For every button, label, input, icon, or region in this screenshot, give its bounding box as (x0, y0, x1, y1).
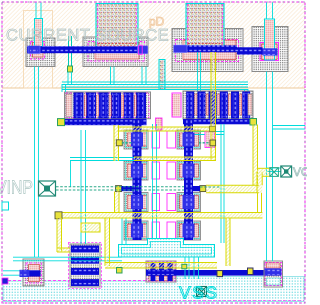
poly contact box gap M1-M2 (68, 66, 73, 72)
svg-text:VSS: VSS (179, 283, 219, 303)
VA1 implant dash right (135, 4, 137, 47)
port VSS (197, 287, 207, 297)
MB3 metal finger 2 (159, 262, 164, 281)
MA1 left contact column (66, 94, 72, 117)
poly contact box bottom band (117, 268, 123, 274)
VB1 row 2 contact plate (131, 164, 143, 178)
via stack column above M1 (35, 19, 43, 47)
cascode row 2 left cell group (124, 161, 148, 180)
metal1 port box left edge lower (2, 278, 8, 284)
nmos array MA1 implant dashed box (66, 93, 149, 118)
cascode row 3 left cell group (124, 193, 148, 212)
port VINP (39, 181, 56, 196)
via array VA1 bottom red row (98, 44, 136, 46)
metal1 stub row2 right (193, 186, 200, 191)
metal1 stub row2 left (122, 186, 135, 191)
metal1 BB1 right contact plate (138, 46, 148, 54)
VB1 row 4 contact plate (131, 224, 143, 238)
MA2 metal finger F3 (209, 92, 217, 119)
nwell outline around M1 (24, 11, 53, 89)
VA2 implant dash right (221, 4, 223, 47)
metal1 vertical bus VB1 (133, 119, 142, 240)
metal2 wire row link mid (134, 157, 216, 161)
wire metal1 stub right of MB3 (194, 257, 199, 280)
pmos M3 pimplant dashed box (176, 40, 239, 62)
wire metal1 drop to VINP line (70, 161, 72, 187)
substrate implant dashed line (3, 280, 160, 282)
metal2 wire vout riser (257, 172, 262, 193)
metal1 bus BB2 across M3 (174, 45, 238, 52)
pmos M2 pimplant dashed box (88, 42, 145, 62)
svg-text:VOUT: VOUT (293, 165, 307, 179)
metal1 port box left edge mid (2, 202, 9, 210)
metal2 via box main band left end (55, 212, 62, 219)
via box on MB3-MB4 wire right (248, 268, 254, 275)
metal1 jog wire dashes (237, 47, 263, 54)
pmos M2 active area (83, 37, 148, 67)
MBA finger bar 1 (71, 246, 99, 253)
svg-text:VINP: VINP (0, 177, 33, 198)
wire metal1 band to T-region (122, 218, 126, 244)
substrate implant dashed line bottom (3, 300, 304, 302)
poly contact box near MB3 (182, 264, 187, 269)
metal1 vertical bus VB2 (184, 119, 193, 240)
VINP signal wire dashed (56, 187, 184, 190)
nmos MB4 bottom-right active area (264, 261, 283, 287)
MA2 source bus via dashes (183, 119, 253, 124)
metal1 bus BB2 via dashes (174, 45, 238, 52)
wire metal1 drop to MA1 (62, 84, 66, 92)
MB1 metal1 contact plate (20, 270, 30, 277)
wire metal1 right rail (267, 72, 273, 262)
wire metal1 drop to MA2 (245, 89, 249, 91)
metal1 contact plate M4 vias (264, 49, 277, 55)
MA1 source bus via dashes (60, 119, 147, 125)
via array VA1 over M2 (96, 4, 138, 48)
MA2 metal finger F6 (242, 92, 250, 119)
metal1 wire above M1 left (35, 3, 37, 19)
wire metal1 stub left edge MB1 (3, 271, 20, 275)
wire metal1 stub to MB3 (185, 257, 189, 280)
cascode row 1 right implant box (167, 131, 176, 148)
MB3 metal finger 3 (168, 262, 173, 281)
pmos M1 active area (26, 38, 55, 67)
VA1 implant dash left (97, 4, 99, 47)
cascode row 2 right cell group (177, 161, 201, 180)
MB4 implant dashed box (265, 263, 282, 286)
cascode row 1 left implant box (152, 131, 160, 148)
cascode row 3 right implant box (167, 194, 176, 211)
metal2 via box row1 corner (209, 126, 215, 131)
MB3 metal finger 1 (151, 262, 156, 281)
MB3 metal1 drain bar (146, 270, 176, 276)
MA2 metal finger F1 (186, 92, 194, 119)
MA1 bus left poly contact (58, 119, 65, 126)
cascode row 1 left cell group (124, 130, 148, 149)
metal2 wire drop right-bottom (226, 218, 230, 266)
MA2 right contact column (248, 94, 252, 115)
wire metal1 rail x68 upper (68, 72, 72, 84)
metal2 wire link to MBA (57, 248, 70, 252)
MBA finger bar 2 (71, 257, 99, 264)
metal1 wire above M4 right (272, 3, 274, 20)
metal2 wire row1 link (117, 127, 216, 131)
VB2 row 4 contact plate (183, 224, 195, 238)
VINP signal wire dashed right (200, 186, 221, 188)
cascode row 1 right cell group (177, 130, 201, 149)
metal1 contact plate in M4 (263, 48, 278, 55)
metal1 wire above M1 right (40, 3, 42, 19)
cascode row 4 right implant box (167, 222, 176, 239)
port VOUT inner box (270, 168, 279, 177)
metal1 jog wire BB2 to M4 (237, 47, 263, 54)
metal1 horizontal bundle under pmos row (62, 81, 248, 83)
MBA finger bar 4 (71, 279, 99, 286)
implant box right of row1 (205, 132, 215, 148)
metal2 via box row2 left (116, 186, 122, 192)
metal2 wire vout riser lower (258, 193, 262, 213)
cascode row 2 right implant box (167, 162, 176, 179)
MA2 gap contact columns (195, 94, 242, 115)
cascode row 4 right cell group (177, 221, 201, 240)
MA1 metal finger F1 (74, 93, 84, 119)
metal1 BB1 left contact vias (30, 48, 38, 52)
wire metal1 B4 to right border (273, 126, 306, 130)
row1 poly connector left (122, 142, 133, 144)
MB3 implant dashed box (147, 262, 175, 281)
MB4 ndiff contacts top (267, 263, 281, 268)
pmos M4 pdiff contacts (262, 44, 278, 60)
MA2 metal finger F5 (231, 92, 239, 119)
substrate region (p-sub contact strip) (3, 277, 304, 302)
pmos M4 pimplant box (260, 43, 279, 61)
metal1 wire MB3 to MB4 (176, 270, 264, 276)
poly gate between M1 and M2 (68, 36, 70, 67)
via box on inter-stack wires (156, 118, 163, 130)
metal2 wire M3 gate drop (211, 52, 216, 161)
metal2 wire bottom band (105, 263, 217, 269)
MBA finger bar 3 (71, 268, 99, 275)
psub contact T-region bottom middle (119, 239, 215, 258)
pmos M2 pdiff contacts (95, 42, 139, 59)
metal2 wire vout branch band (206, 185, 259, 193)
nmos array MA2 active area (183, 91, 253, 119)
nmos array MA2 guard column (172, 93, 181, 117)
nmos MB3 bottom-middle active area (146, 261, 176, 282)
port VOUT (281, 166, 292, 177)
metal2 wire drop to MBA left (57, 218, 62, 252)
poly gate stub below M3 (197, 52, 199, 91)
MA1 metal finger F2 (86, 93, 96, 119)
MA2 metal finger F2 (197, 92, 205, 119)
cascode row 4 left implant box (152, 222, 160, 239)
MB4 metal1 contact plate (265, 268, 282, 275)
metal2 via box row1 left (116, 140, 122, 146)
poly gate stub below M3 right (200, 52, 202, 91)
MA1 source bus bar (60, 119, 147, 125)
cascode row 4 left cell group (124, 221, 148, 240)
pmos M1 pimplant dashed box (31, 42, 45, 60)
wire metal1 below MA2 bar (183, 132, 224, 135)
svg-text:CURRENT SOURCE: CURRENT SOURCE (6, 27, 169, 45)
cascode row 2 left implant box (152, 162, 160, 179)
row1 poly connector right (199, 142, 210, 144)
MA1 metal finger F5 (124, 93, 134, 119)
MA1 metal finger F4 (111, 93, 121, 119)
via stack column above M4 (265, 19, 275, 60)
via array VA2 bottom red row (188, 44, 222, 46)
nmos array MBA active area (70, 244, 100, 287)
MA2 source bus bar (183, 119, 253, 124)
metal1 BB1 left contact plate (28, 46, 40, 54)
wire metal1 rail between buses (153, 124, 157, 243)
metal2 wire drop mid-bottom (105, 218, 110, 266)
wire metal1 row link (70, 158, 134, 161)
via box on MB3-MB4 wire left (217, 271, 223, 277)
via array VA2 over M3 (186, 4, 224, 48)
wire metal1 rail below M2 left (111, 67, 115, 85)
cascode row 3 left implant box (152, 194, 160, 211)
nmos MB1 bottom-left active area (23, 259, 44, 286)
pmos M3 pdiff contacts (183, 40, 236, 60)
MB3 ndiff contacts top (149, 263, 173, 268)
metal2 via ring MBA (81, 223, 100, 232)
MA1 metal finger F6 (136, 93, 146, 119)
VB1 row 1 contact plate (131, 133, 143, 147)
via strip column between M2 and M3 (159, 60, 165, 90)
VA2 implant dash left (187, 4, 189, 47)
wire metal1 link to MB1 (13, 257, 122, 261)
MA1 metal finger F3 (99, 93, 109, 119)
metal2 wire vout stub to port (257, 168, 270, 176)
nwell bottom boundary (2, 87, 305, 89)
metal2 wire MA2 out drop (253, 125, 258, 187)
cascode row 3 right cell group (177, 193, 201, 212)
pmos M4 active area (252, 27, 288, 72)
magenta marker at BB1 right contact (139, 45, 143, 54)
wire metal1 rail left of MBA (81, 130, 86, 244)
pmos M1 pdiff contacts (33, 43, 44, 58)
wire metal1 link to VOUT port (267, 168, 282, 172)
VB2 via dashes (185, 119, 192, 240)
VB2 row 1 contact plate (183, 133, 195, 147)
wire metal1 rail right of VB2 (221, 124, 224, 243)
MA2 metal finger F4 (220, 92, 228, 119)
metal1 wire above M4 left (266, 3, 268, 20)
metal2 wire main band (57, 213, 262, 219)
MB1 ndiff contacts (29, 265, 40, 282)
metal2 via box row2 right (200, 186, 206, 192)
VB2 row 3 contact plate (183, 195, 195, 209)
metal1 BB2 left contact plate (174, 45, 188, 53)
MA1 gap contact columns (84, 95, 136, 116)
metal2 wire row1 drop left (114, 125, 119, 161)
pmos M3 active area (172, 29, 243, 72)
MB4 sub contacts bottom (267, 278, 281, 285)
MB1 implant dashed box (26, 263, 42, 283)
VB1 via dashes (133, 119, 140, 240)
nmos array MA1 active area (65, 92, 151, 119)
nwell hatched region (2, 2, 305, 88)
metal2 wire row2 drop to band (115, 192, 120, 213)
metal1 bus BB1 via dashes (27, 46, 148, 53)
wire metal1 rail below M2 right (142, 67, 146, 85)
wire metal1 left rail (35, 67, 39, 258)
MB3 ndiff contacts bottom (149, 276, 173, 281)
VB2 row 2 contact plate (183, 164, 195, 178)
MB1 metal1 drain wire (29, 270, 41, 276)
metal2 via box row1 right (210, 140, 216, 146)
MBA implant dashed box (69, 243, 102, 289)
MA2 bus right poly contact (250, 119, 257, 126)
VB1 row 3 contact plate (131, 195, 143, 209)
metal1 bus BB1 M1 to M2 (27, 46, 148, 53)
poly gate between M1 and M2 right line (71, 36, 73, 67)
